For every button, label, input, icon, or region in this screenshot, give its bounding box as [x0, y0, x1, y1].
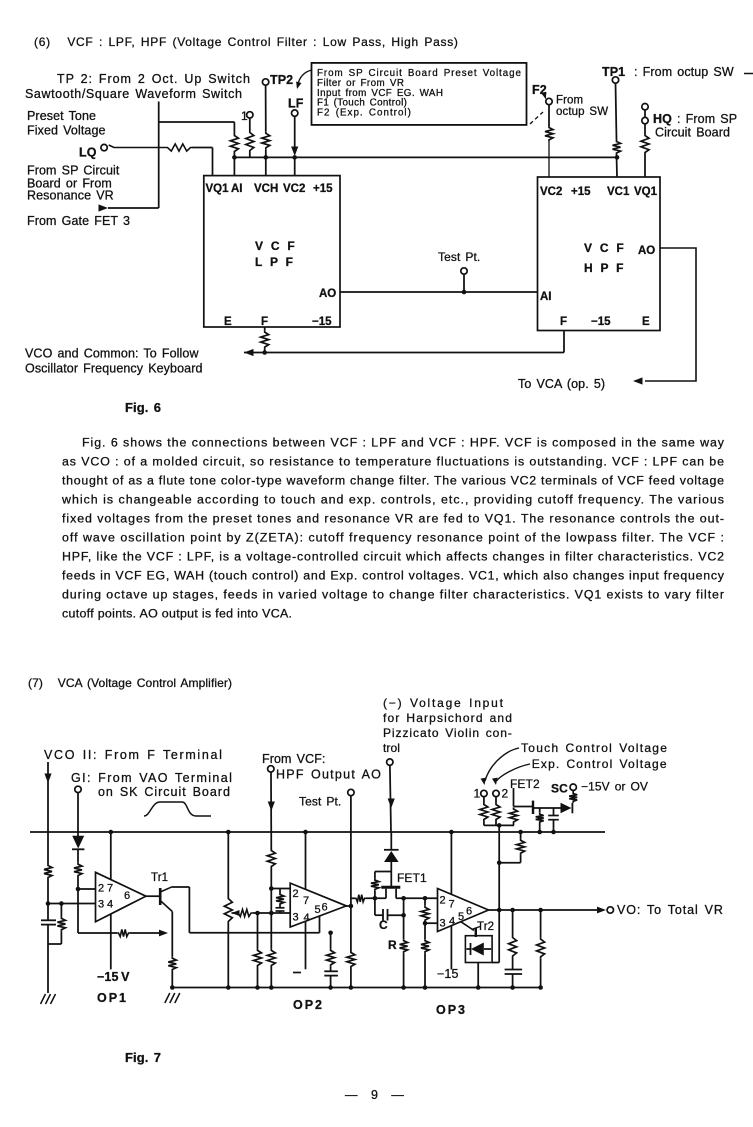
svg-text:2: 2 — [502, 787, 509, 801]
svg-text:(6) VCF : LPF, HPF (Volta: (6) VCF : LPF, HPF (Voltage Control Filt… — [34, 35, 458, 49]
svg-text:Fixed Voltage: Fixed Voltage — [27, 124, 106, 138]
svg-text:FET1: FET1 — [397, 871, 427, 885]
svg-text:Fig. 6: Fig. 6 — [125, 400, 161, 415]
svg-text:VQ1: VQ1 — [634, 186, 658, 198]
svg-text:Fig. 6 shows the connectio: Fig. 6 shows the connections between VCF… — [82, 435, 725, 449]
svg-text:From Gate FET 3: From Gate FET 3 — [27, 214, 130, 228]
svg-text:on SK Circuit Board: on SK Circuit Board — [98, 785, 230, 799]
svg-text:2: 2 — [293, 888, 299, 900]
svg-text:: From octup SW: : From octup SW — [634, 65, 734, 79]
svg-text:LF: LF — [288, 97, 304, 111]
svg-text:VQ1: VQ1 — [206, 183, 230, 195]
svg-text:VCO II: From F Terminal: VCO II: From F Terminal — [44, 748, 222, 762]
svg-text:LQ: LQ — [79, 146, 97, 160]
svg-text:−15 V: −15 V — [97, 970, 130, 984]
svg-text:V C F: V C F — [255, 239, 296, 253]
svg-text:From SP Circuit: From SP Circuit — [27, 164, 120, 178]
svg-text:To VCA (op. 5): To VCA (op. 5) — [518, 377, 605, 391]
svg-text:off wave oscillation point: off wave oscillation point by Z(ZETA): c… — [62, 530, 724, 544]
svg-text:1: 1 — [474, 787, 481, 801]
svg-text:for Harpsichord and: for Harpsichord and — [383, 711, 512, 725]
svg-text:VC2: VC2 — [540, 186, 562, 198]
svg-text:6: 6 — [466, 906, 472, 918]
svg-text:+15: +15 — [313, 183, 333, 195]
svg-text:F: F — [261, 316, 268, 328]
svg-text:(7) VCA (Voltage Control: (7) VCA (Voltage Control Amplifier) — [28, 676, 232, 690]
svg-text:L P F: L P F — [255, 255, 294, 269]
svg-text:AI: AI — [540, 291, 552, 303]
svg-text:3: 3 — [293, 912, 299, 924]
svg-text:Fig. 7: Fig. 7 — [125, 1050, 161, 1065]
svg-text:TP 2: From 2 Oct. Up Switch: TP 2: From 2 Oct. Up Switch — [57, 72, 250, 86]
svg-text:Oscillator Frequency Keyboard: Oscillator Frequency Keyboard — [25, 362, 203, 376]
svg-text:4: 4 — [107, 899, 113, 911]
svg-text:Tr1: Tr1 — [151, 872, 168, 884]
svg-text:Sawtooth/Square Waveform Switc: Sawtooth/Square Waveform Switch — [25, 87, 242, 101]
svg-text:E: E — [224, 316, 232, 328]
svg-text:Exp. Control Voltage: Exp. Control Voltage — [532, 757, 667, 771]
svg-text:HPF, like the VCF : LPF, i: HPF, like the VCF : LPF, is a voltage-co… — [62, 549, 724, 563]
svg-text:AI: AI — [231, 183, 243, 195]
svg-text:as VCO : of a molded circu: as VCO : of a molded circuit, so resista… — [62, 454, 724, 468]
svg-text:VC1: VC1 — [607, 186, 630, 198]
svg-text:HPF Output AO: HPF Output AO — [276, 768, 381, 782]
svg-text:−15: −15 — [312, 316, 332, 328]
svg-text:H P F: H P F — [584, 261, 625, 275]
svg-text:V C F: V C F — [584, 241, 625, 255]
svg-text:2: 2 — [440, 895, 446, 907]
svg-text:VCH: VCH — [254, 183, 278, 195]
svg-text:+15: +15 — [571, 186, 591, 198]
svg-text:(−) Voltage Input: (−) Voltage Input — [383, 696, 504, 710]
svg-text:−15: −15 — [437, 967, 459, 981]
svg-text:cutoff points. AO output: cutoff points. AO output is fed into VCA… — [62, 606, 292, 620]
svg-text:HQ : From SP: HQ : From SP — [653, 112, 737, 126]
svg-text:5: 5 — [315, 904, 321, 916]
svg-text:Preset Tone: Preset Tone — [27, 109, 96, 123]
svg-text:Resonance VR: Resonance VR — [27, 189, 114, 203]
svg-text:7: 7 — [303, 895, 309, 907]
svg-text:Test Pt.: Test Pt. — [299, 795, 341, 809]
svg-text:FET2: FET2 — [510, 777, 540, 791]
svg-text:VCO and Common: To Follow: VCO and Common: To Follow — [25, 347, 199, 361]
svg-text:E: E — [642, 316, 650, 328]
svg-text:feeds in VCF EG, WAH (tou: feeds in VCF EG, WAH (touch control) and… — [62, 568, 725, 582]
svg-text:From VCF:: From VCF: — [262, 752, 326, 766]
svg-text:octup SW: octup SW — [556, 106, 608, 118]
svg-text:OP2: OP2 — [293, 998, 324, 1012]
svg-text:which is changeable accordi: which is changeable according to touch a… — [61, 492, 724, 506]
svg-text:6: 6 — [124, 890, 130, 902]
svg-text:−15: −15 — [591, 316, 611, 328]
svg-text:thought of as a flute tone col: thought of as a flute tone color-type wa… — [62, 473, 724, 487]
svg-text:4: 4 — [304, 912, 310, 924]
svg-text:−15V or OV: −15V or OV — [581, 780, 648, 794]
svg-text:VO: To Total VR: VO: To Total VR — [617, 903, 723, 917]
svg-text:— 9 —: — 9 — — [345, 1088, 404, 1102]
svg-text:Circuit Board: Circuit Board — [655, 126, 730, 140]
svg-text:F: F — [560, 316, 567, 328]
svg-text:3: 3 — [98, 899, 104, 911]
svg-text:AO: AO — [319, 288, 336, 300]
svg-text:during octave up stages, f: during octave up stages, feeds in varied… — [62, 587, 724, 601]
svg-text:From: From — [556, 95, 583, 107]
svg-text:6: 6 — [322, 902, 328, 914]
svg-text:F2 (Exp. Control): F2 (Exp. Control) — [317, 107, 411, 118]
svg-text:Test Pt.: Test Pt. — [438, 250, 480, 264]
svg-text:AO: AO — [638, 245, 655, 257]
svg-text:Touch Control Voltage: Touch Control Voltage — [521, 741, 667, 755]
svg-text:2: 2 — [98, 883, 104, 895]
svg-text:OP3: OP3 — [436, 1003, 467, 1017]
svg-text:GI: From VAO Terminal: GI: From VAO Terminal — [71, 771, 232, 785]
svg-text:VC2: VC2 — [283, 183, 305, 195]
svg-text:3: 3 — [440, 918, 446, 930]
svg-text:R: R — [388, 938, 397, 952]
svg-text:SC: SC — [551, 782, 568, 796]
svg-text:trol: trol — [383, 741, 400, 755]
svg-text:TP2: TP2 — [270, 73, 293, 87]
svg-text:OP1: OP1 — [97, 991, 128, 1005]
svg-text:fixed voltages from the pr: fixed voltages from the preset tones and… — [62, 511, 724, 525]
svg-text:7: 7 — [107, 883, 113, 895]
svg-text:Pizzicato Violin con-: Pizzicato Violin con- — [383, 726, 512, 740]
svg-text:7: 7 — [449, 899, 455, 911]
svg-text:5: 5 — [458, 911, 464, 923]
